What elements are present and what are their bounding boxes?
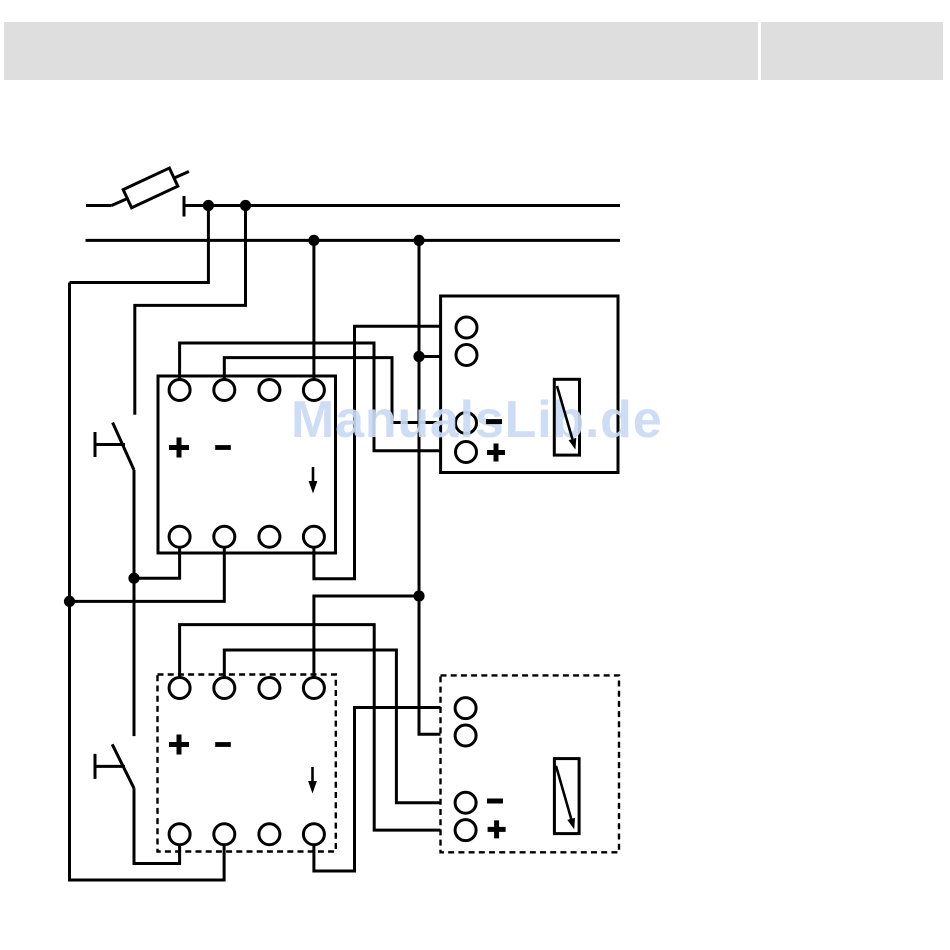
relay K2 arrow: [311, 767, 314, 784]
U2 terminal 2: [455, 725, 476, 746]
U2 terminal plus: [455, 820, 476, 841]
relay K1 terminal 4: [303, 380, 324, 401]
relay K2 minus label: [215, 742, 231, 747]
relay K2 terminal 6: [214, 824, 235, 845]
fuse F1 body: [123, 168, 178, 208]
U2 minus label: [487, 799, 503, 804]
node dot at x=419 y=596: [413, 590, 424, 601]
node dot S1/S2/relay1-T5 junction: [128, 573, 139, 584]
power supply U2 dashed box: [441, 675, 620, 852]
relay K2 terminal 1: [169, 678, 190, 699]
U1 terminal plus: [456, 442, 477, 463]
wire stub to PSU1 T2: [419, 355, 441, 358]
relay K2 dashed box: [158, 675, 336, 852]
relay K2 terminal 5: [169, 824, 190, 845]
node dot at x=419 y=356: [413, 351, 424, 362]
node dot left rail / relay1 T6: [64, 596, 75, 607]
U1 terminal 2: [456, 345, 477, 366]
wire relay2 T2 to PSU2 minus: [224, 650, 440, 803]
wire L2 bus: [86, 239, 621, 242]
wire S2 bottom to relay2 T5: [134, 788, 180, 863]
relay K1 terminal 5: [169, 526, 190, 547]
power supply U1 box: [441, 296, 618, 473]
relay K1 terminal 2: [214, 380, 235, 401]
node dot on L2 at x=314: [308, 235, 319, 246]
relay K2 terminal 7: [259, 824, 280, 845]
U1 meter frame: [554, 379, 579, 455]
wire L1 bus right segment: [184, 204, 620, 207]
wire from L1 dot2 down to push button S1: [135, 206, 246, 415]
wire S1 bottom down to node: [133, 470, 136, 736]
push button S2 actuator: [95, 754, 125, 779]
wire left rail down: [70, 283, 225, 881]
relay K1 terminal 8: [303, 526, 324, 547]
U1 plus label: [487, 444, 505, 462]
push button S2 blade: [112, 744, 134, 788]
wire L2 dot down to relay1 T4: [312, 240, 315, 379]
relay K1 terminal 3: [259, 380, 280, 401]
header bar left: [4, 22, 758, 80]
U1 meter needle arrow: [557, 386, 572, 439]
wire relay1 T8 to PSU1 T1: [314, 326, 441, 579]
U2 meter needle arrow: [556, 766, 571, 819]
relay K2 terminal 4: [303, 678, 324, 699]
U1 minus label: [486, 419, 502, 424]
fuse-switch F1 fixed contact bar: [183, 196, 186, 217]
U1 terminal 1: [456, 317, 477, 338]
relay K2 terminal 3: [259, 678, 280, 699]
relay K2 plus label: [169, 735, 189, 755]
U2 terminal 1: [455, 698, 476, 719]
relay K2 terminal 8: [303, 824, 324, 845]
watermark ManualsLib.de: [291, 401, 662, 439]
relay K1 terminal 6: [214, 526, 235, 547]
wire relay1 T2 to PSU1 minus: [224, 358, 440, 423]
node dot on L1 at x=245: [240, 200, 251, 211]
U2 plus label: [488, 820, 506, 838]
relay K1 terminal 1: [169, 380, 190, 401]
header bar right: [761, 22, 943, 80]
wire relay2 T8 to PSU2 T1: [314, 708, 441, 872]
node dot on L1 at x=208: [203, 200, 214, 211]
fuse-switch F1 blade diagonal: [112, 172, 189, 206]
node dot on L2 at x=419: [413, 235, 424, 246]
wire from node to relay2 T4: [314, 596, 419, 678]
U2 meter frame: [554, 759, 579, 834]
relay K1 minus label: [215, 445, 231, 450]
relay K2 terminal 2: [214, 678, 235, 699]
relay K1 terminal 7: [259, 526, 280, 547]
U1 terminal minus: [456, 413, 477, 434]
U2 terminal minus: [455, 792, 476, 813]
push button S1 blade: [113, 423, 134, 471]
wire relay2 T1 to PSU2 plus: [180, 625, 441, 831]
wire relay1 T6 to left rail: [70, 547, 225, 601]
wire long vertical from L2 dot x=419 to PSU2 T2: [419, 240, 441, 734]
wire relay1 T1 to PSU1 plus: [180, 343, 441, 451]
push button S1 actuator: [95, 432, 125, 457]
relay K1 plus label: [169, 438, 189, 458]
wire from L1 dot down-left to left rail: [70, 206, 209, 283]
relay K1 arrow: [312, 467, 315, 484]
wire node to relay1 T5: [134, 547, 180, 578]
relay K1 box: [158, 376, 336, 553]
wire L1 bus left stub: [86, 204, 112, 207]
